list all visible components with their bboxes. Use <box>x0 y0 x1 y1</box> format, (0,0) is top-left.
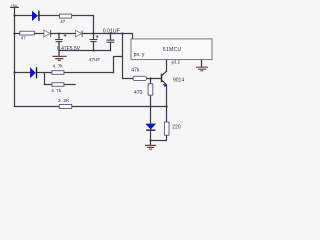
svg-text:0.01UF: 0.01UF <box>103 29 120 35</box>
svg-text:p3.2: p3.2 <box>172 60 181 65</box>
svg-text:47: 47 <box>60 19 65 24</box>
svg-text:220: 220 <box>172 125 181 131</box>
svg-text:0.47F5.5V: 0.47F5.5V <box>57 46 81 52</box>
svg-text:4. 7k: 4. 7k <box>51 88 62 93</box>
svg-text:51MCU: 51MCU <box>163 47 182 53</box>
svg-text:47UF: 47UF <box>89 57 101 62</box>
svg-text:470: 470 <box>134 90 143 96</box>
svg-text:9014: 9014 <box>173 77 184 83</box>
svg-text:47: 47 <box>21 35 26 40</box>
svg-text:px. y: px. y <box>134 52 145 58</box>
svg-text:+5V: +5V <box>11 4 18 8</box>
svg-text:4. 7k: 4. 7k <box>53 64 64 69</box>
svg-text:47k: 47k <box>131 67 140 73</box>
svg-text:2. 2K: 2. 2K <box>58 98 70 104</box>
